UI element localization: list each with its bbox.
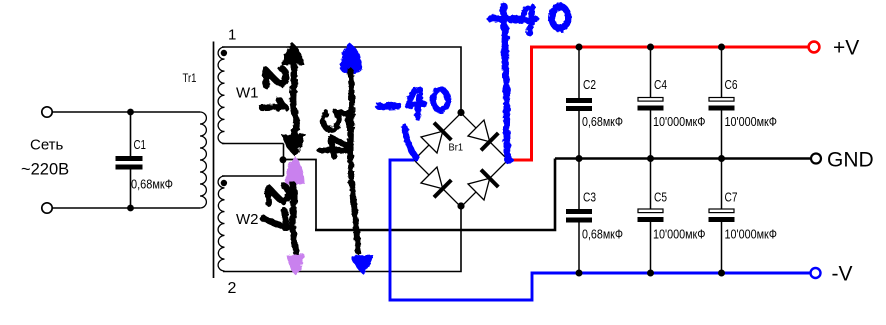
capacitor C3 bbox=[566, 159, 592, 274]
svg-text:-V: -V bbox=[832, 263, 853, 286]
wire: bridge left to -V rail (blue) bbox=[390, 160, 810, 300]
annotation: black shaft over W2 bbox=[292, 184, 296, 252]
bridge diamond edges bbox=[414, 113, 508, 207]
capacitor C4 (electrolytic) bbox=[638, 47, 664, 159]
wire: W2 top to mid-tap bbox=[222, 175, 284, 177]
wire: W1 top to bridge top bbox=[222, 47, 461, 113]
transformer core bbox=[213, 42, 215, 279]
junction: bridge top node bbox=[457, 109, 464, 116]
svg-text:C1: C1 bbox=[134, 138, 147, 152]
svg-text:C2: C2 bbox=[583, 78, 596, 92]
capacitor C5 (electrolytic) bbox=[638, 159, 664, 274]
svg-text:C5: C5 bbox=[654, 191, 667, 205]
diode D4 (bottom to right) bbox=[468, 170, 498, 200]
svg-text:0,68мкФ: 0,68мкФ bbox=[131, 177, 173, 191]
annotation: handwritten -40 (blue) bbox=[379, 90, 448, 159]
svg-text:0,68мкФ: 0,68мкФ bbox=[582, 115, 623, 129]
annotation: handwritten +40 (blue) with lead-in stroke bbox=[491, 6, 569, 164]
node: +V output terminal bbox=[809, 42, 820, 53]
wire: mid-tap to GND run bbox=[283, 160, 316, 231]
svg-text:C6: C6 bbox=[725, 78, 738, 92]
wire: mains top bbox=[53, 111, 200, 113]
annotation: purple arrow over W2 top head bbox=[285, 156, 305, 185]
annotation: black arrow over W1 bottom head bbox=[282, 134, 306, 157]
svg-text:GND: GND bbox=[827, 149, 874, 172]
wire: W2 bottom to bridge bottom bbox=[223, 206, 461, 272]
svg-text:+V: +V bbox=[833, 37, 859, 60]
svg-text:C4: C4 bbox=[654, 78, 667, 92]
annotation: blue tall arrow top head bbox=[340, 43, 362, 74]
junction: mid-tap node bbox=[280, 156, 287, 163]
junction dots +V rail bbox=[576, 44, 726, 51]
svg-text:10'000мкФ: 10'000мкФ bbox=[725, 227, 778, 241]
polarity dot W2 bbox=[221, 180, 227, 186]
svg-text:C7: C7 bbox=[725, 191, 738, 205]
annotation: black arrow over W1 top head bbox=[282, 43, 305, 66]
transformer secondary winding W2 bbox=[218, 176, 224, 271]
junction on mains top at C1 bbox=[127, 109, 134, 116]
net label: Сеть ~220В bbox=[21, 137, 69, 179]
capacitor C6 (electrolytic) bbox=[709, 47, 735, 159]
junction dots -V rail bbox=[576, 270, 726, 277]
junction: bridge bottom node bbox=[457, 202, 464, 209]
annotation: purple arrow over W2 bottom head bbox=[287, 254, 305, 276]
wire: W1 bottom to mid-tap bbox=[222, 143, 284, 145]
diode D3 (left to bottom) bbox=[421, 167, 451, 197]
annotation: black arrow over W1 shaft bbox=[293, 60, 297, 137]
capacitor C1 bbox=[116, 112, 143, 208]
diode D2 (top to right) bbox=[468, 120, 498, 150]
svg-text:W1: W1 bbox=[236, 85, 259, 102]
svg-text:C3: C3 bbox=[583, 191, 596, 205]
annotation: blue tall arrow bottom head bbox=[351, 255, 373, 274]
svg-text:Br1: Br1 bbox=[449, 142, 464, 154]
svg-text:0,68мкФ: 0,68мкФ bbox=[582, 227, 623, 241]
annotation: handwritten 21 bbox=[262, 68, 287, 108]
annotation: handwritten 27 bbox=[262, 186, 288, 230]
polarity dot W1 bbox=[221, 50, 227, 56]
transformer secondary winding W1 bbox=[218, 47, 224, 144]
svg-text:W2: W2 bbox=[236, 211, 259, 228]
bridge rectifier Br1 bbox=[414, 113, 508, 207]
svg-text:10'000мкФ: 10'000мкФ bbox=[653, 115, 706, 129]
junction dots GND rail bbox=[576, 155, 726, 162]
junction on mains bottom at C1 bbox=[127, 205, 134, 212]
svg-text:Tr1: Tr1 bbox=[183, 71, 197, 85]
wire: GND rail bbox=[555, 157, 811, 160]
svg-text:10'000мкФ: 10'000мкФ bbox=[653, 227, 706, 241]
node: -V output terminal bbox=[811, 268, 821, 278]
wire: GND run bottom bbox=[315, 159, 555, 231]
wire: mid-tap vertical bbox=[283, 144, 285, 177]
annotation: handwritten 45 bbox=[319, 111, 349, 157]
wire: bridge right to +V rail (red) bbox=[508, 47, 809, 160]
transformer Tr1 primary winding bbox=[200, 112, 206, 208]
diode D1 (left to top) bbox=[421, 123, 451, 153]
capacitor C2 bbox=[566, 47, 592, 159]
svg-text:~220В: ~220В bbox=[21, 161, 69, 179]
svg-text:10'000мкФ: 10'000мкФ bbox=[725, 115, 778, 129]
node: GND output terminal bbox=[811, 154, 821, 164]
node: mains input terminal bottom bbox=[42, 203, 52, 213]
node: mains input terminal top bbox=[42, 107, 52, 117]
svg-text:1: 1 bbox=[228, 27, 236, 44]
wire: mains bottom bbox=[53, 207, 200, 209]
svg-text:Сеть: Сеть bbox=[30, 137, 64, 154]
annotation: black tall shaft bbox=[351, 71, 359, 252]
hand-drawn annotations bbox=[262, 6, 569, 276]
svg-text:2: 2 bbox=[228, 280, 237, 297]
capacitor C7 (electrolytic) bbox=[709, 159, 735, 274]
